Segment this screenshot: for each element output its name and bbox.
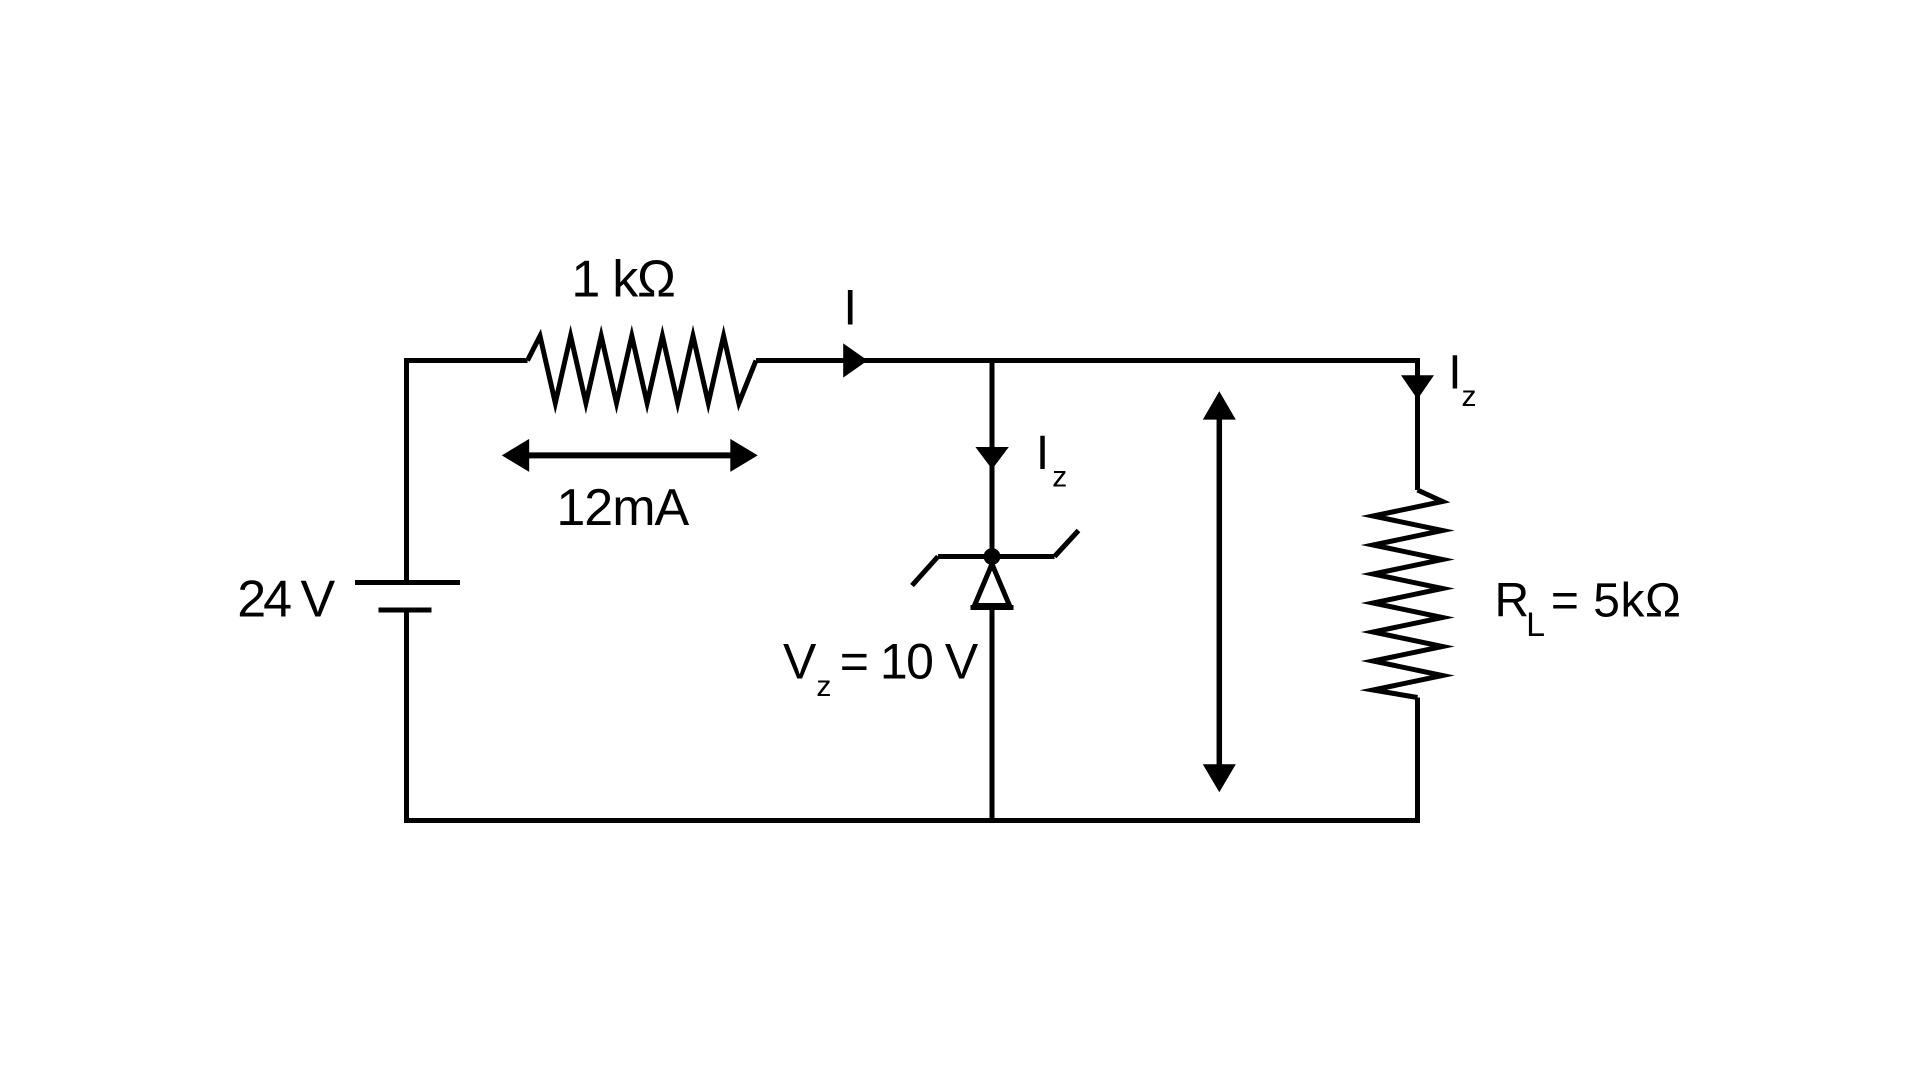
svg-text:12mA: 12mA bbox=[556, 479, 689, 537]
svg-text:1 kΩ: 1 kΩ bbox=[571, 251, 674, 309]
svg-text:Iz: Iz bbox=[1448, 346, 1476, 413]
svg-text:24 V: 24 V bbox=[237, 570, 335, 628]
svg-text:Iz: Iz bbox=[1036, 427, 1067, 494]
svg-text:I: I bbox=[843, 280, 857, 336]
svg-text:RL = 5kΩ: RL = 5kΩ bbox=[1495, 574, 1682, 644]
svg-text:Vz = 10 V: Vz = 10 V bbox=[783, 634, 979, 704]
